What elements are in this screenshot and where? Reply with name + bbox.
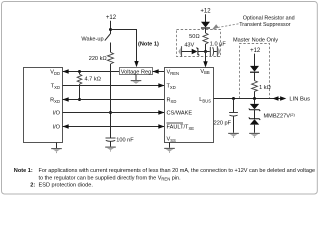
svg-text:TXD: TXD xyxy=(167,84,176,90)
wire LBUS row xyxy=(214,98,281,100)
optional components dashed box xyxy=(177,30,221,57)
svg-text:+12: +12 xyxy=(106,15,117,21)
capacitor 1.0 uF xyxy=(206,51,210,53)
svg-text:For applications with current: For applications with current requiremen… xyxy=(39,168,316,174)
svg-text:Note 1:: Note 1: xyxy=(14,168,33,174)
wire I/O to FAULT (bidirectional) xyxy=(63,126,165,128)
wire +12 to diode xyxy=(205,14,207,22)
svg-text:4.7 kΩ: 4.7 kΩ xyxy=(85,77,102,83)
svg-text:VSS: VSS xyxy=(167,137,177,143)
svg-text:VDD: VDD xyxy=(50,70,60,76)
wire resistor chain down to 100 nF capacitor xyxy=(110,64,112,138)
resistor 50 Ohm xyxy=(203,33,208,44)
junction dot RXD / 4.7k xyxy=(78,98,81,101)
microcontroller box xyxy=(24,68,63,143)
svg-text:ESD protection diode.: ESD protection diode. xyxy=(39,183,94,189)
junction dot LIN node xyxy=(253,97,256,100)
diode D2 master node xyxy=(250,66,259,72)
wire switch to resistor xyxy=(110,43,112,53)
zener diode 43V xyxy=(182,51,192,53)
svg-text:2:: 2: xyxy=(30,183,35,189)
svg-text:VREN: VREN xyxy=(167,70,180,76)
svg-text:Optional Resistor and: Optional Resistor and xyxy=(243,15,295,21)
diode D1 reverse battery xyxy=(201,22,210,28)
master node dashed box xyxy=(240,44,270,99)
LIN transceiver box xyxy=(165,68,214,143)
svg-text:220 kΩ: 220 kΩ xyxy=(89,56,108,62)
resistor 1 kOhm xyxy=(252,81,258,92)
junction dot 220 pF tap xyxy=(232,97,235,100)
svg-text:(Note 1): (Note 1) xyxy=(138,42,159,48)
capacitor 100 nF xyxy=(106,137,116,139)
ground for MMBZ27V xyxy=(249,132,260,134)
junction dot VDD / 4.7k xyxy=(78,70,81,73)
svg-text:+12: +12 xyxy=(200,9,211,15)
LIN Bus arrows xyxy=(272,96,278,100)
wire Note 1 branch to Voltage Reg xyxy=(111,30,137,62)
junction dot at I/O row 1 xyxy=(109,111,112,114)
svg-text:50Ω: 50Ω xyxy=(189,34,200,40)
sideways ground for 43V zener xyxy=(181,46,183,57)
svg-text:RXD: RXD xyxy=(167,98,177,104)
wire +12 to diode D2 xyxy=(254,54,256,67)
svg-text:220 pF: 220 pF xyxy=(214,121,232,127)
ground for transceiver VSS xyxy=(169,143,171,148)
junction dot at +12 / Note 1 branch xyxy=(109,28,112,31)
svg-text:FAULT/TXE: FAULT/TXE xyxy=(167,125,195,131)
wire down to 220 pF xyxy=(233,99,235,113)
svg-text:100 nF: 100 nF xyxy=(116,138,134,144)
resistor 220 kOhm xyxy=(108,52,114,64)
ground for voltage regulator xyxy=(135,75,137,81)
ground for 220 pF xyxy=(228,132,239,134)
switch Wake-up xyxy=(105,34,110,41)
wire TXD row xyxy=(63,85,165,87)
resistor 4.7 kOhm xyxy=(79,72,81,75)
svg-text:43V: 43V xyxy=(184,43,194,49)
wire I/O to CS/WAKE xyxy=(63,112,165,114)
voltage regulator box xyxy=(120,68,153,75)
svg-text:Transient Suppressor: Transient Suppressor xyxy=(239,22,291,28)
svg-text:CS/WAKE: CS/WAKE xyxy=(167,111,193,117)
ground for 100 nF xyxy=(110,141,112,146)
ground for microcontroller xyxy=(56,143,58,149)
svg-text:I/O: I/O xyxy=(53,125,61,131)
capacitor 220 pF xyxy=(229,112,238,114)
zener MMBZ27V lower xyxy=(249,117,260,120)
svg-text:LIN Bus: LIN Bus xyxy=(289,97,310,103)
wire VREN to voltage regulator xyxy=(153,71,165,73)
zener MMBZ27V upper xyxy=(254,99,256,104)
svg-text:TXD: TXD xyxy=(51,84,60,90)
sideways ground for 1.0 uF xyxy=(216,46,218,57)
svg-text:LBUS: LBUS xyxy=(199,97,211,103)
svg-text:Wake-up: Wake-up xyxy=(81,36,103,42)
svg-text:I/O: I/O xyxy=(53,111,61,117)
svg-text:RXD: RXD xyxy=(50,98,60,104)
svg-text:1 kΩ: 1 kΩ xyxy=(259,85,271,91)
svg-text:1.0 µF: 1.0 µF xyxy=(210,42,227,48)
svg-text:to the regulator can be suppli: to the regulator can be supplied directl… xyxy=(39,175,182,181)
wire +12 down to switch xyxy=(110,21,112,34)
svg-text:+12: +12 xyxy=(250,48,261,54)
wire VBB into transceiver xyxy=(205,52,207,62)
wire VDD row xyxy=(63,71,120,73)
svg-text:VBB: VBB xyxy=(200,69,210,75)
svg-text:Master Node Only: Master Node Only xyxy=(233,37,278,43)
wire RXD row xyxy=(63,99,165,101)
junction dot VBB node xyxy=(204,50,207,53)
